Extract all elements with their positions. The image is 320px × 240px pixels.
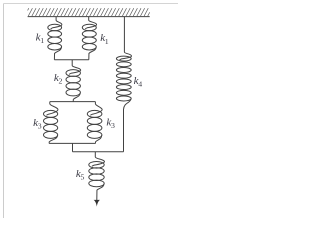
spring k4 [116, 17, 131, 152]
svg-text:5: 5 [81, 173, 85, 182]
wire connector bar3 to bar4 [72, 143, 74, 151]
svg-text:1: 1 [40, 36, 44, 45]
bar joining k2 to k3 pair [50, 101, 96, 103]
spring k2 [66, 60, 81, 102]
bar below k3 pair [49, 142, 95, 144]
bar joining to k4 and k5 [73, 151, 124, 153]
ceiling hatching [28, 8, 150, 16]
svg-text:4: 4 [138, 79, 142, 88]
spring k3 left [44, 102, 58, 144]
ceiling baseline [28, 16, 150, 18]
svg-text:3: 3 [38, 122, 42, 131]
frame border left [3, 4, 5, 219]
spring k3 right [87, 102, 102, 144]
spring k1 left [48, 17, 62, 60]
spring k5 [89, 152, 105, 201]
spring k1 right [82, 17, 96, 60]
force arrow head [94, 200, 100, 207]
bar joining k1 pair to k2 [54, 59, 88, 61]
frame border top [4, 3, 179, 5]
svg-text:2: 2 [59, 76, 63, 85]
svg-text:1: 1 [105, 37, 109, 46]
svg-text:3: 3 [111, 121, 115, 130]
